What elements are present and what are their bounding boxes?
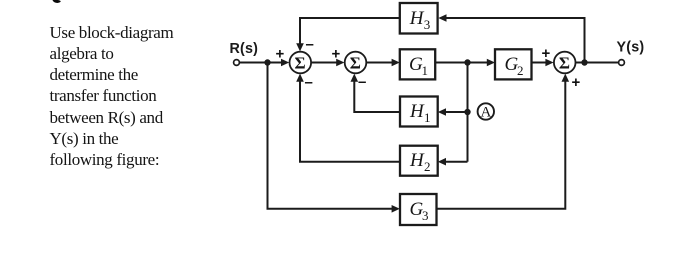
arrow into S3 bottom — [562, 74, 570, 82]
question text — [50, 22, 210, 171]
node pickoff H1 — [464, 109, 470, 115]
summing junction S3 — [554, 52, 576, 74]
wire R pickoff down to G3 — [268, 63, 396, 209]
svg-text:3: 3 — [424, 17, 431, 32]
arrow into S1 — [281, 59, 289, 67]
svg-text:Σ: Σ — [295, 54, 306, 73]
svg-text:3: 3 — [422, 208, 429, 223]
svg-text:1: 1 — [422, 63, 429, 78]
svg-text:H: H — [409, 101, 425, 122]
wire into H1 — [443, 111, 468, 113]
svg-text:Σ: Σ — [350, 54, 361, 73]
svg-text:2: 2 — [517, 63, 524, 78]
svg-text:+: + — [572, 74, 581, 91]
svg-text:1: 1 — [424, 110, 431, 125]
arrow into G2 — [487, 59, 495, 67]
svg-text:Y(s): Y(s) — [617, 40, 645, 56]
block G1 — [400, 49, 435, 79]
wire G2 to S3 — [532, 62, 551, 64]
wire pickoff after G1 down — [467, 63, 469, 162]
svg-text:Σ: Σ — [559, 54, 570, 73]
svg-text:+: + — [276, 46, 285, 63]
summing junction S2 — [345, 52, 367, 74]
arrow into S2 bottom — [351, 74, 359, 82]
wire G1 to G2 — [435, 62, 491, 64]
arrow into H2 — [438, 158, 446, 166]
node after S3 — [581, 59, 587, 65]
wire into H2 — [443, 161, 468, 163]
arrow into H1 — [438, 108, 446, 116]
arrow into G1 — [392, 59, 400, 67]
wire H3 feedback: pickoff up and left into H3 — [444, 18, 585, 63]
svg-text:–: – — [358, 74, 366, 91]
block H2 — [400, 146, 438, 176]
node after G1 — [464, 59, 470, 65]
terminal Y(s) — [619, 60, 625, 66]
wire H3 output down into S1 top — [300, 18, 400, 49]
arrow into S1 bottom — [296, 74, 304, 82]
terminal R(s) — [234, 60, 240, 66]
arrow into G3 — [392, 205, 400, 213]
wire R(s) to S1 — [239, 62, 286, 64]
summing junction S1 — [290, 52, 312, 74]
arrow into S3 — [545, 59, 553, 67]
svg-text:2: 2 — [424, 159, 431, 174]
svg-text:–: – — [306, 36, 314, 53]
wire H2 output to S1 bottom — [300, 78, 400, 162]
wire S2 to G1 — [367, 62, 397, 64]
svg-text:–: – — [305, 74, 313, 91]
block G3 — [400, 194, 437, 225]
wire H1 output to S2 bottom — [354, 78, 400, 112]
arrow into S2 — [336, 59, 344, 67]
cropped glyph top-left — [52, 0, 60, 3]
wire S3 to Y(s) — [576, 62, 619, 64]
node after R(s) — [264, 59, 270, 65]
arrow into H3 — [438, 14, 446, 22]
wire S1 to S2 — [311, 62, 341, 64]
block H1 — [400, 97, 438, 127]
svg-text:H: H — [409, 8, 425, 29]
svg-text:A: A — [481, 105, 492, 121]
block H3 — [400, 3, 438, 34]
svg-text:+: + — [332, 46, 341, 63]
block G2 — [495, 49, 532, 79]
svg-text:R(s): R(s) — [230, 41, 259, 57]
svg-text:H: H — [409, 150, 425, 171]
svg-text:+: + — [542, 45, 551, 62]
wire G3 output to S3 bottom — [437, 78, 566, 209]
arrow into S1 top — [296, 43, 304, 51]
node A circle — [478, 103, 494, 120]
